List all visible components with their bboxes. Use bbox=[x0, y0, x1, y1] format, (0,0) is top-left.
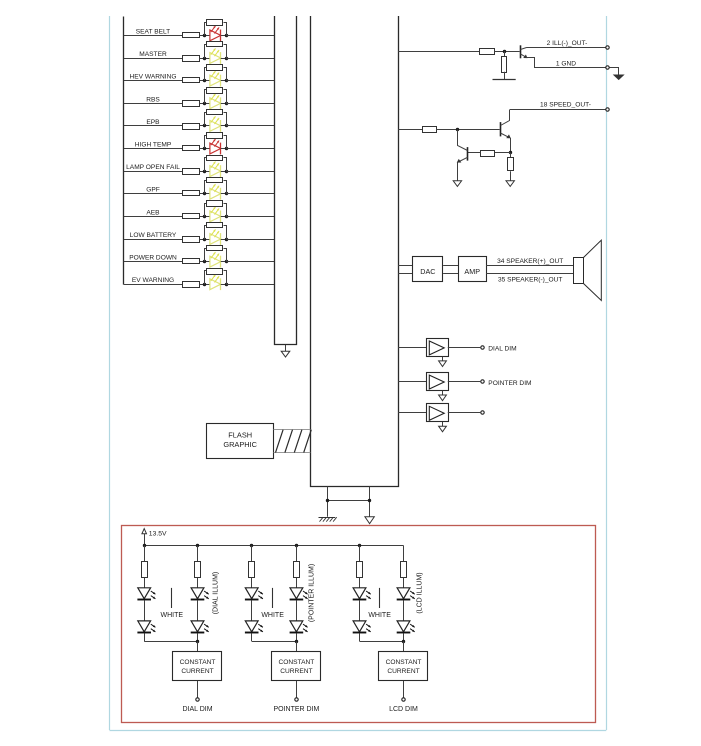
white LED D13b bbox=[138, 621, 151, 632]
wire EPB to driver IC bbox=[226, 125, 274, 127]
pin 18 SPEED_OUT- bbox=[606, 108, 609, 111]
ground (R_e, open triangle) bbox=[506, 181, 514, 187]
pin buffer 1 output bbox=[481, 346, 484, 349]
wire HIGH TEMP resistor to LED anode bbox=[200, 148, 210, 150]
wire RBS LED cathode bbox=[221, 103, 227, 105]
wire RBS to driver IC bbox=[226, 103, 274, 105]
svg-text:MASTER: MASTER bbox=[139, 51, 167, 58]
transistor Q3 base bar bbox=[467, 147, 469, 161]
junction MASTER anode bbox=[203, 57, 206, 60]
LED D7 (LAMP OPEN FAIL) bbox=[210, 166, 221, 177]
junction GPF cathode bbox=[225, 192, 228, 195]
white LED D13a bbox=[138, 588, 151, 599]
wire HEV WARNING from bus to resistor bbox=[124, 80, 183, 82]
svg-text:34 SPEAKER(+)_OUT: 34 SPEAKER(+)_OUT bbox=[497, 258, 563, 265]
junction LAMP OPEN FAIL cathode bbox=[225, 170, 228, 173]
wire branch C mid bbox=[251, 600, 253, 620]
wire HEV WARNING LED cathode bbox=[221, 80, 227, 82]
wire POWER DOWN LED cathode bbox=[221, 261, 227, 263]
wire group 1 join bbox=[144, 641, 197, 643]
wire branch D top bbox=[296, 546, 298, 562]
svg-text:CONSTANT: CONSTANT bbox=[279, 659, 315, 666]
ground (driver) bbox=[281, 351, 290, 357]
svg-text:GPF: GPF bbox=[146, 187, 160, 194]
MCU U1 bbox=[311, 16, 399, 487]
resistor R_pulldown ILL bbox=[502, 57, 507, 73]
svg-text:LAMP OPEN FAIL: LAMP OPEN FAIL bbox=[126, 164, 180, 171]
speaker LS1 bbox=[584, 240, 602, 300]
wire regulator 3 output bbox=[403, 681, 405, 698]
wire AEB LED cathode bbox=[221, 216, 227, 218]
resistor R9p (parallel AEB) bbox=[205, 204, 207, 217]
wire 34 SPEAKER(+)_OUT bbox=[486, 265, 575, 267]
junction bus branch C bbox=[250, 544, 253, 547]
wire branch D bottom bbox=[296, 633, 298, 641]
wire emitter node to R_e bbox=[510, 153, 512, 158]
wire GPF LED cathode bbox=[221, 193, 227, 195]
wire Q1 collector to ILL pin bbox=[527, 47, 606, 49]
LED D3 (HEV WARNING) bbox=[210, 75, 221, 86]
wire GPF resistor to LED anode bbox=[200, 193, 210, 195]
resistor R_led3 bbox=[249, 562, 255, 578]
resistor R8p (parallel GPF) bbox=[205, 181, 207, 194]
wire POWER DOWN resistor to LED anode bbox=[200, 261, 210, 263]
svg-text:FLASH: FLASH bbox=[228, 431, 252, 440]
pin buffer 3 output bbox=[481, 411, 484, 414]
white LED D18a bbox=[397, 588, 410, 599]
ground (buffer 2) bbox=[439, 395, 447, 401]
resistor R11 (series POWER DOWN) bbox=[183, 259, 200, 264]
resistor R_led2 bbox=[195, 562, 201, 578]
wire HIGH TEMP LED cathode bbox=[221, 148, 227, 150]
resistor R7 (series LAMP OPEN FAIL) bbox=[183, 169, 200, 175]
junction bus branch E bbox=[358, 544, 361, 547]
wire emitter node to R_fb bbox=[495, 152, 510, 154]
white LED D14a bbox=[191, 588, 204, 599]
white LED D16b bbox=[290, 621, 303, 632]
transistor Q2 collector bbox=[501, 110, 510, 126]
wire Q3 emitter to ground bbox=[457, 162, 459, 180]
white LED D15b bbox=[245, 621, 258, 632]
ground (Q3, open triangle) bbox=[453, 181, 461, 187]
white LED D15a bbox=[245, 588, 258, 599]
wire EPB from bus to resistor bbox=[124, 125, 183, 127]
wire LAMP OPEN FAIL LED cathode bbox=[221, 171, 227, 173]
resistor R1 (series SEAT BELT) bbox=[183, 33, 200, 38]
resistor R1p (parallel SEAT BELT) bbox=[205, 23, 207, 36]
wire group 1 to regulator bbox=[197, 641, 199, 651]
wire HEV WARNING to driver IC bbox=[226, 80, 274, 82]
svg-text:WHITE: WHITE bbox=[261, 612, 284, 619]
LED driver IC U2 bbox=[275, 16, 297, 345]
wire branch D resistor to LED bbox=[296, 577, 298, 587]
svg-text:RBS: RBS bbox=[146, 96, 160, 103]
svg-text:(POINTER ILLUM): (POINTER ILLUM) bbox=[309, 564, 316, 622]
wire MCU to buffer 2 bbox=[398, 381, 426, 383]
junction group 1 join bbox=[196, 640, 199, 643]
junction EPB anode bbox=[203, 124, 206, 127]
wire group 2 to regulator bbox=[296, 641, 298, 651]
svg-text:35 SPEAKER(-)_OUT: 35 SPEAKER(-)_OUT bbox=[498, 277, 563, 284]
junction bus branch A bbox=[143, 544, 146, 547]
AMP block bbox=[459, 257, 487, 282]
junction LAMP OPEN FAIL anode bbox=[203, 170, 206, 173]
LED D12 (EV WARNING) bbox=[210, 279, 221, 290]
constant current regulator 1 bbox=[173, 652, 222, 681]
junction HEV WARNING anode bbox=[203, 79, 206, 82]
junction POWER DOWN cathode bbox=[225, 260, 228, 263]
wire MASTER LED cathode bbox=[221, 58, 227, 60]
LED D11 (POWER DOWN) bbox=[210, 256, 221, 267]
svg-text:CONSTANT: CONSTANT bbox=[386, 659, 422, 666]
connector frame bottom edge bbox=[110, 730, 607, 732]
resistor R_fb bbox=[481, 151, 495, 157]
junction ground tie left bbox=[326, 499, 329, 502]
resistor R10 (series LOW BATTERY) bbox=[183, 237, 200, 243]
LED D2 (MASTER) bbox=[210, 53, 221, 64]
wire LOW BATTERY LED cathode bbox=[221, 239, 227, 241]
wire MCU to R_ILL bbox=[398, 51, 479, 53]
junction EV WARNING cathode bbox=[225, 283, 228, 286]
svg-text:POINTER DIM: POINTER DIM bbox=[488, 380, 531, 387]
wire MCU to R_SPEED bbox=[398, 129, 422, 131]
wire LOW BATTERY from bus to resistor bbox=[124, 239, 183, 241]
svg-text:DIAL DIM: DIAL DIM bbox=[488, 346, 516, 353]
LED D8 (GPF) bbox=[210, 188, 221, 199]
wire POWER DOWN from bus to resistor bbox=[124, 261, 183, 263]
pin POINTER DIM bbox=[295, 698, 298, 701]
transistor Q2 emitter bbox=[500, 133, 508, 137]
junction LOW BATTERY anode bbox=[203, 238, 206, 241]
svg-text:HIGH TEMP: HIGH TEMP bbox=[135, 142, 172, 149]
wire MASTER from bus to resistor bbox=[124, 58, 183, 60]
wire HEV WARNING resistor to LED anode bbox=[200, 80, 210, 82]
resistor R6p (parallel HIGH TEMP) bbox=[205, 136, 207, 149]
wire branch A top bbox=[144, 546, 146, 562]
svg-text:DAC: DAC bbox=[420, 267, 435, 276]
wire LOW BATTERY resistor to LED anode bbox=[200, 239, 210, 241]
wire branch E resistor to LED bbox=[359, 577, 361, 587]
white LED D14b bbox=[191, 621, 204, 632]
resistor R_SPEED bbox=[423, 127, 437, 133]
wire branch A mid bbox=[144, 600, 146, 620]
LED D4 (RBS) bbox=[210, 98, 221, 109]
wire group 3 join bbox=[360, 641, 404, 643]
junction HEV WARNING cathode bbox=[225, 79, 228, 82]
wire branch C resistor to LED bbox=[251, 577, 253, 587]
separator bar group 3 bbox=[379, 588, 381, 608]
wire RBS from bus to resistor bbox=[124, 103, 183, 105]
resistor R_led4 bbox=[294, 562, 300, 578]
wire GPF from bus to resistor bbox=[124, 193, 183, 195]
wire MCU ground right bbox=[369, 487, 371, 517]
wire branch F top bbox=[403, 546, 405, 562]
resistor R3p (parallel HEV WARNING) bbox=[205, 68, 207, 81]
wire R_fb to Q3 base bbox=[468, 152, 481, 154]
DAC block bbox=[413, 257, 443, 282]
wire HIGH TEMP to driver IC bbox=[226, 148, 274, 150]
wire GND pin to arrow bbox=[610, 68, 619, 75]
svg-text:(DIAL ILLUM): (DIAL ILLUM) bbox=[212, 572, 219, 615]
svg-text:SEAT BELT: SEAT BELT bbox=[136, 28, 170, 35]
resistor R9 (series AEB) bbox=[183, 214, 200, 219]
junction SEAT BELT cathode bbox=[225, 34, 228, 37]
wire MCU to buffer 3 bbox=[398, 412, 426, 414]
junction Q2 emitter node bbox=[509, 151, 512, 154]
wire branch E bottom bbox=[359, 633, 361, 641]
resistor R5p (parallel EPB) bbox=[205, 113, 207, 126]
white LED D17a bbox=[353, 588, 366, 599]
wire branch D mid bbox=[296, 600, 298, 620]
wire EPB LED cathode bbox=[221, 125, 227, 127]
svg-text:CURRENT: CURRENT bbox=[280, 668, 312, 675]
svg-text:CURRENT: CURRENT bbox=[387, 668, 419, 675]
svg-text:EV WARNING: EV WARNING bbox=[132, 277, 174, 284]
svg-text:1 GND: 1 GND bbox=[556, 60, 576, 67]
wire GPF to driver IC bbox=[226, 193, 274, 195]
wire branch E top bbox=[359, 546, 361, 562]
wire AEB resistor to LED anode bbox=[200, 216, 210, 218]
LED D10 (LOW BATTERY) bbox=[210, 234, 221, 245]
wire buffer 2 output bbox=[448, 381, 481, 383]
buffer U4 bbox=[427, 373, 449, 391]
svg-text:AEB: AEB bbox=[146, 209, 160, 216]
wire R_e to ground bbox=[510, 171, 512, 180]
wire SEAT BELT to driver IC bbox=[226, 35, 274, 37]
wire group 2 join bbox=[252, 641, 297, 643]
connector frame left edge bbox=[109, 16, 111, 730]
transistor Q1 collector bbox=[521, 48, 527, 50]
wire branch B resistor to LED bbox=[197, 577, 199, 587]
wire LOW BATTERY to driver IC bbox=[226, 239, 274, 241]
resistor R8 (series GPF) bbox=[183, 191, 200, 196]
resistor R12p (parallel EV WARNING) bbox=[205, 271, 207, 285]
wire Q1 emitter to GND pin bbox=[527, 58, 606, 68]
junction EV WARNING anode bbox=[203, 283, 206, 286]
wire base node to pulldown resistor bbox=[504, 51, 506, 56]
white LED D18b bbox=[397, 621, 410, 632]
wire MCU to DAC upper bbox=[398, 265, 413, 267]
wire buffer 3 ground stem bbox=[442, 422, 444, 426]
pin 1 GND bbox=[606, 66, 609, 69]
resistor R2p (parallel MASTER) bbox=[205, 45, 207, 59]
connector frame right edge bbox=[606, 16, 608, 730]
wire POWER DOWN to driver IC bbox=[226, 261, 274, 263]
wire ground tie bbox=[328, 500, 370, 502]
wire branch A resistor to LED bbox=[144, 577, 146, 587]
wire branch E mid bbox=[359, 600, 361, 620]
wire buffer 1 ground stem bbox=[442, 357, 444, 361]
wire 35 SPEAKER(-)_OUT bbox=[486, 273, 575, 275]
junction SEAT BELT anode bbox=[203, 34, 206, 37]
LED D1 (SEAT BELT) bbox=[210, 30, 221, 41]
wire 13.5V bus bbox=[144, 545, 403, 547]
resistor R6 (series HIGH TEMP) bbox=[183, 146, 200, 151]
svg-text:CONSTANT: CONSTANT bbox=[180, 659, 216, 666]
wire DAC to AMP upper bbox=[443, 265, 458, 267]
transistor Q2 base bar bbox=[500, 122, 502, 136]
junction AEB anode bbox=[203, 215, 206, 218]
svg-text:EPB: EPB bbox=[146, 119, 160, 126]
svg-text:(LCD ILLUM): (LCD ILLUM) bbox=[416, 572, 423, 613]
wire R_SPEED to node bbox=[436, 129, 500, 131]
svg-text:DIAL DIM: DIAL DIM bbox=[182, 706, 212, 713]
resistor R_led6 bbox=[401, 562, 407, 578]
resistor R12 (series EV WARNING) bbox=[183, 282, 200, 288]
wire regulator 1 output bbox=[197, 681, 199, 698]
pin DIAL DIM bbox=[196, 698, 199, 701]
flash memory block FLASH GRAPHIC bbox=[207, 424, 274, 459]
wire branch C top bbox=[251, 546, 253, 562]
ground (MCU right, open triangle) bbox=[365, 517, 374, 524]
resistor R3 (series HEV WARNING) bbox=[183, 78, 200, 83]
junction HIGH TEMP anode bbox=[203, 147, 206, 150]
junction RBS cathode bbox=[225, 102, 228, 105]
wire EV WARNING resistor to LED anode bbox=[200, 284, 210, 286]
svg-text:13.5V: 13.5V bbox=[149, 531, 167, 538]
ground (ILL, bar) bbox=[493, 79, 516, 81]
wire RBS resistor to LED anode bbox=[200, 103, 210, 105]
chassis ground (hatched) bbox=[319, 517, 336, 519]
wire driver ground stem bbox=[285, 345, 287, 351]
resistor R5 (series EPB) bbox=[183, 124, 200, 130]
wire Q2 emitter to node bbox=[510, 138, 512, 153]
junction EPB cathode bbox=[225, 124, 228, 127]
svg-text:CURRENT: CURRENT bbox=[181, 668, 213, 675]
pin 2 ILL(-)_OUT- bbox=[606, 46, 609, 49]
wire pulldown to ground bbox=[504, 72, 506, 80]
wire MCU to buffer 1 bbox=[398, 347, 426, 349]
wire branch B bottom bbox=[197, 633, 199, 641]
resistor R_e bbox=[508, 158, 514, 171]
junction group 2 join bbox=[295, 640, 298, 643]
wire EV WARNING to driver IC bbox=[226, 284, 274, 286]
transistor Q3 collector bbox=[458, 130, 468, 151]
resistor R_led5 bbox=[357, 562, 363, 578]
svg-text:AMP: AMP bbox=[464, 267, 480, 276]
constant current regulator 2 bbox=[272, 652, 321, 681]
wire SEAT BELT LED cathode bbox=[221, 35, 227, 37]
junction AEB cathode bbox=[225, 215, 228, 218]
wire HIGH TEMP from bus to resistor bbox=[124, 148, 183, 150]
wire LAMP OPEN FAIL to driver IC bbox=[226, 171, 274, 173]
resistor R_led1 bbox=[142, 562, 148, 578]
svg-text:LOW BATTERY: LOW BATTERY bbox=[130, 232, 177, 239]
junction LOW BATTERY cathode bbox=[225, 238, 228, 241]
buffer U5 bbox=[427, 404, 449, 422]
junction MASTER cathode bbox=[225, 57, 228, 60]
pin LCD DIM bbox=[402, 698, 405, 701]
wire regulator 2 output bbox=[296, 681, 298, 698]
wire branch B top bbox=[197, 546, 199, 562]
buffer U3 bbox=[427, 339, 449, 357]
svg-text:GRAPHIC: GRAPHIC bbox=[223, 440, 257, 449]
white LED D17b bbox=[353, 621, 366, 632]
wire branch F resistor to LED bbox=[403, 577, 405, 587]
junction RBS anode bbox=[203, 102, 206, 105]
telltale input bus bbox=[123, 17, 125, 285]
wire MCU to DAC lower bbox=[398, 273, 413, 275]
ground (buffer 1) bbox=[439, 361, 447, 367]
wire AEB to driver IC bbox=[226, 216, 274, 218]
resistor R11p (parallel POWER DOWN) bbox=[205, 249, 207, 262]
wire EV WARNING from bus to resistor bbox=[124, 284, 183, 286]
wire branch F mid bbox=[403, 600, 405, 620]
junction POWER DOWN anode bbox=[203, 260, 206, 263]
wire buffer 3 output bbox=[448, 412, 481, 414]
wire buffer 1 output bbox=[448, 347, 481, 349]
junction ground tie right bbox=[368, 499, 371, 502]
junction bus branch B bbox=[196, 544, 199, 547]
separator bar group 2 bbox=[272, 588, 274, 608]
wire MCU ground left bbox=[327, 487, 329, 517]
pin buffer 2 output bbox=[481, 380, 484, 383]
wire DAC to AMP lower bbox=[443, 273, 458, 275]
transistor Q1 base bar bbox=[520, 45, 522, 58]
junction group 3 join bbox=[402, 640, 405, 643]
transistor Q1 emitter bbox=[520, 54, 526, 57]
transistor Q3 emitter bbox=[459, 157, 467, 161]
svg-text:POWER DOWN: POWER DOWN bbox=[129, 255, 177, 262]
svg-text:POINTER DIM: POINTER DIM bbox=[273, 706, 319, 713]
wire group 3 to regulator bbox=[403, 641, 405, 651]
resistor R10p (parallel LOW BATTERY) bbox=[205, 226, 207, 240]
svg-text:HEV WARNING: HEV WARNING bbox=[129, 74, 176, 81]
resistor R_ILL bbox=[480, 49, 495, 55]
wire SEAT BELT resistor to LED anode bbox=[200, 35, 210, 37]
resistor R2 (series MASTER) bbox=[183, 56, 200, 62]
junction GPF anode bbox=[203, 192, 206, 195]
junction bus branch D bbox=[295, 544, 298, 547]
resistor R4p (parallel RBS) bbox=[205, 90, 207, 104]
wire SPEED_OUT bbox=[510, 109, 606, 111]
backlight section box bbox=[122, 526, 596, 723]
wire buffer 2 ground stem bbox=[442, 391, 444, 395]
junction HIGH TEMP cathode bbox=[225, 147, 228, 150]
wire SEAT BELT from bus to resistor bbox=[124, 35, 183, 37]
wire AEB from bus to resistor bbox=[124, 216, 183, 218]
LED D9 (AEB) bbox=[210, 211, 221, 222]
svg-text:WHITE: WHITE bbox=[161, 612, 184, 619]
svg-text:WHITE: WHITE bbox=[368, 612, 391, 619]
wire LAMP OPEN FAIL from bus to resistor bbox=[124, 171, 183, 173]
svg-text:2 ILL(-)_OUT-: 2 ILL(-)_OUT- bbox=[547, 40, 588, 47]
svg-text:LCD DIM: LCD DIM bbox=[389, 706, 418, 713]
LED D5 (EPB) bbox=[210, 121, 221, 132]
constant current regulator 3 bbox=[379, 652, 428, 681]
junction SPEED node bbox=[456, 128, 459, 131]
power arrow 13.5V bbox=[142, 529, 147, 534]
wire branch A bottom bbox=[144, 633, 146, 641]
ground (connector GND arrow) bbox=[614, 75, 623, 79]
junction ILL base node bbox=[503, 50, 506, 53]
wire branch C bottom bbox=[251, 633, 253, 641]
white LED D16a bbox=[290, 588, 303, 599]
resistor R4 (series RBS) bbox=[183, 101, 200, 107]
wire branch B mid bbox=[197, 600, 199, 620]
wire R_ILL to base node bbox=[494, 51, 519, 53]
wire LAMP OPEN FAIL resistor to LED anode bbox=[200, 171, 210, 173]
parallel bus FLASH to MCU bbox=[274, 429, 311, 431]
LED D6 (HIGH TEMP) bbox=[210, 143, 221, 154]
ground (buffer 3) bbox=[439, 426, 447, 432]
wire branch F bottom bbox=[403, 633, 405, 641]
separator bar group 1 bbox=[171, 588, 173, 608]
wire MASTER to driver IC bbox=[226, 58, 274, 60]
resistor R7p (parallel LAMP OPEN FAIL) bbox=[205, 158, 207, 172]
wire MASTER resistor to LED anode bbox=[200, 58, 210, 60]
wire EPB resistor to LED anode bbox=[200, 125, 210, 127]
